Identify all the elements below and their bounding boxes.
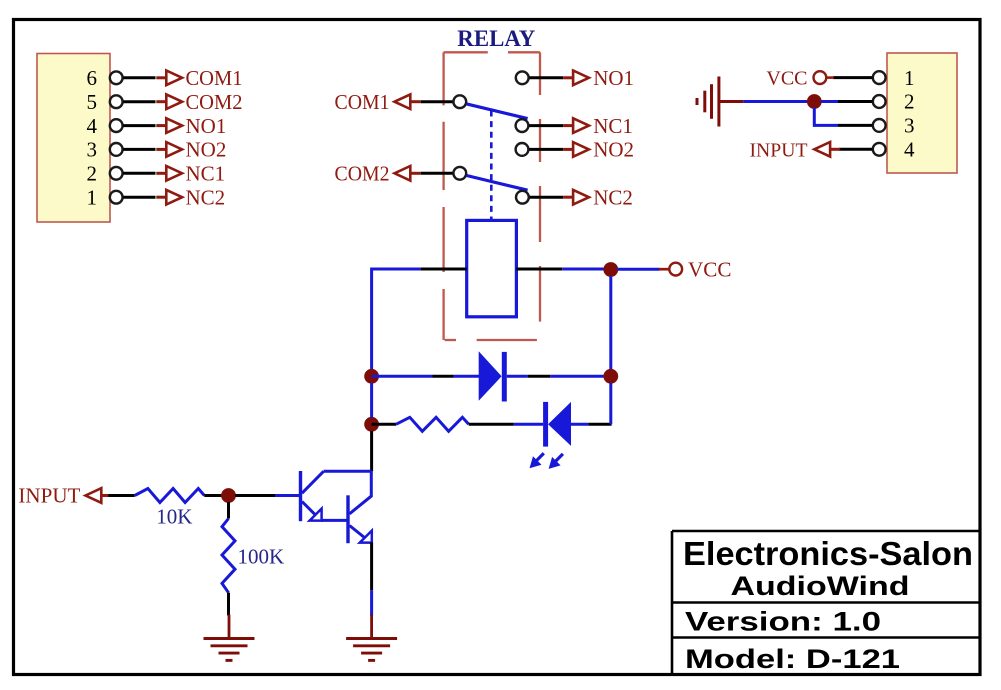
J2 pin 1 circle (873, 71, 886, 84)
svg-text:100K: 100K (238, 545, 285, 569)
wire R3 to LED (514, 423, 543, 426)
wire right vertical (VCC node to D1 node) (609, 276, 612, 376)
J2 pin 3 number (904, 114, 915, 138)
svg-text:6: 6 (87, 66, 98, 90)
relay pin NO1 circle (516, 71, 529, 84)
svg-text:INPUT: INPUT (750, 139, 808, 161)
junction node LED row left (364, 417, 379, 432)
wire D1 row left blue (372, 375, 433, 378)
value label 100K (238, 545, 285, 569)
diode D1 left pin (433, 375, 454, 378)
wire emitter to ground (blue) (370, 590, 373, 616)
svg-text:COM1: COM1 (335, 90, 390, 114)
relay pin NC1 circle (516, 119, 529, 132)
svg-text:NO1: NO1 (593, 66, 634, 90)
Q2 emitter pin (black) (370, 542, 373, 590)
port arrow INPUT (left) (86, 488, 112, 503)
net label VCC (middle) (688, 257, 732, 281)
J1 pin 6 circle (110, 71, 123, 84)
relay coil K1 body (467, 220, 517, 316)
power port VCC (top right) stub (827, 76, 834, 79)
svg-text:VCC: VCC (688, 257, 732, 281)
J1 pin 4 wire (123, 124, 155, 127)
diode D1 cathode bar (502, 352, 507, 402)
junction node D1 right (603, 369, 618, 384)
port label NC1 (593, 114, 633, 138)
transistor Q1 emitter arrowhead (310, 509, 322, 521)
LED D2 cathode bar (543, 402, 548, 447)
port arrow NO2 (563, 142, 589, 157)
relay pin NO2 circle (516, 143, 529, 156)
svg-text:Version: 1.0: Version: 1.0 (685, 607, 881, 637)
svg-text:2: 2 (87, 162, 98, 186)
wire D1 row right blue (550, 375, 611, 378)
connector J2 body (4-pin, yellow) (887, 53, 957, 173)
port arrow NC2 (563, 190, 589, 205)
ground symbol (under R2) (204, 615, 255, 661)
port arrow COM2 (395, 166, 421, 181)
svg-text:NO2: NO2 (593, 138, 634, 162)
svg-text:Electronics-Salon: Electronics-Salon (683, 535, 973, 572)
J2 pin 1 wire (833, 76, 872, 79)
relay switch arm 1 (COM1-NC1) (467, 104, 528, 119)
wire coil row left (blue) (372, 268, 421, 271)
LED D2 emission arrow 1 (530, 453, 544, 468)
power port VCC stub (middle) (659, 268, 670, 271)
svg-text:VCC: VCC (766, 68, 807, 90)
port label NC2 (593, 185, 633, 209)
port arrow NO2 (J1) (156, 142, 182, 157)
svg-text:COM2: COM2 (186, 90, 243, 114)
transistor Q1 emitter (302, 502, 321, 521)
port label NO2 (593, 138, 634, 162)
J1 pin 2 number (87, 162, 98, 186)
J1 pin 5 circle (110, 95, 123, 108)
wire Q1 emitter to Q2 base (321, 519, 348, 522)
relay contact COM2 circle (453, 167, 466, 180)
port label NC1 (J1) (186, 162, 226, 186)
relay title RELAY (457, 26, 535, 51)
svg-text:Model: D-121: Model: D-121 (685, 644, 900, 674)
J2 pin 3 circle (873, 119, 886, 132)
wire ground to node (blue) (743, 100, 809, 103)
J1 pin 3 wire (123, 148, 155, 151)
resistor R2 top pin (227, 502, 230, 519)
J2 pin 4 wire (839, 148, 872, 151)
title text AudioWind (731, 571, 910, 601)
wire D1 pin to body (454, 375, 479, 378)
wire LED corner up to D1 node (609, 383, 612, 424)
svg-text:1: 1 (904, 66, 915, 90)
resistor R1 left pin (108, 494, 134, 497)
port label COM2 (J1) (186, 90, 243, 114)
J1 pin 3 circle (110, 143, 123, 156)
svg-text:NC2: NC2 (593, 185, 633, 209)
svg-text:NC1: NC1 (186, 162, 226, 186)
J1 pin 1 number (87, 185, 98, 209)
svg-text:1: 1 (87, 185, 98, 209)
relay pin NC2 circle (516, 191, 529, 204)
wire left vertical (D1 node to LED node) (370, 383, 373, 418)
svg-text:COM2: COM2 (335, 162, 390, 186)
J1 pin 4 number (87, 114, 98, 138)
wire node down to pin3 row (814, 108, 838, 126)
svg-text:3: 3 (904, 114, 915, 138)
J1 pin 6 number (87, 66, 98, 90)
J1 pin 2 wire (123, 172, 155, 175)
port label INPUT (top right) (750, 139, 808, 161)
LED D2 triangle (548, 402, 571, 446)
svg-text:AudioWind: AudioWind (731, 571, 910, 601)
port arrow COM2 (J1) (156, 94, 182, 109)
wire COM2 to contact (421, 172, 454, 175)
wire base node to Q1 (black) (235, 494, 275, 497)
LED D2 right pin (588, 423, 611, 426)
svg-text:NC1: NC1 (593, 114, 633, 138)
wire collector bus (324, 470, 372, 473)
junction node base (221, 488, 236, 503)
relay switch arm 2 (COM2-NC2) (467, 176, 528, 191)
value label 10K (156, 505, 192, 529)
svg-text:2: 2 (904, 90, 915, 114)
J2 pin 4 circle (873, 143, 886, 156)
wire COM1 to contact (421, 100, 454, 103)
port label NC2 (J1) (186, 185, 226, 209)
transistor Q2 emitter arrowhead (360, 531, 372, 543)
transistor Q2 base bar (346, 495, 349, 543)
port label COM2 (335, 162, 390, 186)
port arrow COM1 (J1) (156, 71, 182, 86)
wire node to VCC port (617, 268, 660, 271)
J2 pin 3 wire (838, 124, 872, 127)
relay pin NO2 wire (529, 148, 563, 151)
relay pin NC2 wire (530, 196, 564, 199)
resistor R2 100K zigzag (222, 519, 235, 593)
resistor R2 bottom pin (227, 593, 230, 616)
relay coil left pin (421, 268, 467, 271)
ground symbol (under Q2) (346, 615, 397, 661)
J2 pin 2 wire (838, 100, 872, 103)
svg-text:NO1: NO1 (186, 114, 227, 138)
svg-text:INPUT: INPUT (18, 484, 80, 508)
title block border lines (672, 531, 980, 674)
relay dashed outline box (444, 52, 540, 340)
J1 pin 1 wire (123, 196, 155, 199)
wire to Q1 base (blue) (275, 494, 299, 497)
resistor R1 10K zigzag (135, 489, 205, 503)
junction node (pin2/pin3) (807, 94, 822, 109)
title text Model: D-121 (685, 644, 900, 674)
J1 pin 2 circle (110, 167, 123, 180)
relay actuation dotted line (490, 111, 493, 220)
port label COM1 (335, 90, 390, 114)
svg-text:NC2: NC2 (186, 185, 226, 209)
LED D2 emission arrow 2 (549, 454, 563, 469)
J2 pin 4 number (904, 138, 915, 162)
port arrow INPUT (top right) (814, 142, 840, 157)
J1 pin 6 wire (123, 76, 155, 79)
junction node VCC row (603, 262, 618, 277)
diode D1 right pin (528, 375, 550, 378)
transistor Q2 emitter (350, 526, 371, 543)
port label NO2 (J1) (186, 138, 227, 162)
relay pin NO1 wire (529, 76, 563, 79)
net label VCC (top right) (766, 68, 807, 90)
port arrow NC2 (J1) (156, 190, 182, 205)
junction node D1 left (364, 369, 379, 384)
J1 pin 5 wire (123, 100, 155, 103)
svg-text:4: 4 (904, 138, 915, 162)
port arrow COM1 (395, 94, 421, 109)
wire coil to VCC node (562, 268, 604, 271)
svg-text:5: 5 (87, 90, 98, 114)
port arrow NC1 (J1) (156, 166, 182, 181)
svg-text:NO2: NO2 (186, 138, 227, 162)
svg-text:10K: 10K (156, 505, 192, 529)
transistor Q1 collector (302, 471, 324, 493)
J1 pin 3 number (87, 138, 98, 162)
resistor R3 right pin (469, 423, 514, 426)
wire D1 body to pin (507, 375, 528, 378)
transistor Q2 collector (350, 471, 372, 514)
power port VCC circle (top right) (814, 71, 827, 84)
diode D1 triangle (479, 351, 502, 401)
port arrow NO1 (J1) (156, 118, 182, 133)
port arrow NC1 (563, 118, 589, 133)
earth ground symbol (top right) (697, 77, 743, 127)
J1 pin 1 circle (110, 191, 123, 204)
resistor R1 right pin (204, 494, 222, 497)
title text Electronics-Salon (683, 535, 973, 572)
relay coil right pin (516, 268, 562, 271)
resistor R3 zigzag (396, 417, 469, 431)
wire collector vertical (black) (370, 431, 373, 471)
resistor R3 left pin (372, 423, 396, 426)
svg-text:RELAY: RELAY (457, 26, 535, 51)
svg-text:3: 3 (87, 138, 98, 162)
J1 pin 4 circle (110, 119, 123, 132)
J2 pin 2 number (904, 90, 915, 114)
power port VCC circle (middle) (669, 263, 682, 276)
title text Version: 1.0 (685, 607, 881, 637)
port arrow NO1 (563, 71, 589, 86)
J2 pin 2 circle (873, 95, 886, 108)
port label NO1 (593, 66, 634, 90)
port label INPUT (left) (18, 484, 80, 508)
relay pin NC1 wire (529, 124, 563, 127)
J1 pin 5 number (87, 90, 98, 114)
relay contact COM1 circle (453, 95, 466, 108)
svg-text:COM1: COM1 (186, 66, 243, 90)
wire LED to pin (571, 423, 588, 426)
connector J1 body (6-pin, yellow) (37, 54, 110, 223)
port label NO1 (J1) (186, 114, 227, 138)
wire node to pin2 (821, 100, 838, 103)
port label COM1 (J1) (186, 66, 243, 90)
svg-text:4: 4 (87, 114, 98, 138)
J2 pin 1 number (904, 66, 915, 90)
wire left vertical (coil to D1 node) (370, 268, 373, 377)
transistor Q1 base bar (299, 471, 302, 521)
